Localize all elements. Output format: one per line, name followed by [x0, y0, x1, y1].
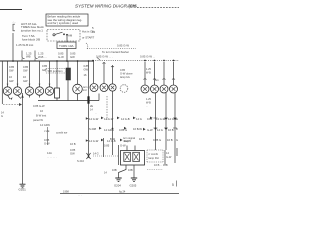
right dashed box text	[149, 152, 159, 160]
connector arrow lamp 3	[29, 84, 31, 86]
svg-text:W-B: W-B	[146, 71, 151, 74]
svg-text:16 B: 16 B	[167, 138, 173, 142]
resistor bottom leg	[56, 98, 58, 101]
svg-text:G-W: G-W	[58, 55, 64, 59]
connector half C1	[22, 51, 25, 59]
relay top label B	[123, 136, 135, 143]
connector label right	[38, 52, 47, 59]
wire from fuse block down	[12, 33, 14, 61]
right wire W2 down	[165, 93, 167, 150]
relay stub A	[126, 146, 128, 151]
svg-text:G-W dome: G-W dome	[120, 72, 133, 76]
bus micro text	[38, 58, 41, 61]
connector tick row 1	[89, 117, 177, 121]
lamp R2 hook	[103, 62, 106, 65]
lamp wire 3	[29, 61, 31, 87]
lamp L1 ground stub	[8, 95, 11, 99]
svg-text:WB: WB	[26, 55, 31, 59]
svg-text:GW: GW	[23, 79, 28, 83]
lamp L2 ground stub	[18, 95, 22, 98]
svg-text:J 2E: J 2E	[44, 129, 50, 133]
svg-text:16B: 16B	[128, 168, 133, 172]
wire color dashes col	[146, 98, 151, 108]
relay leg 2	[133, 165, 135, 178]
svg-text:0.85: 0.85	[70, 148, 76, 152]
header rule left	[0, 9, 22, 11]
svg-text:16B: 16B	[112, 168, 117, 172]
lamp R2 stub	[103, 62, 105, 84]
relay box outer	[121, 151, 145, 166]
page ref marks left edge	[1, 112, 4, 119]
tick	[97, 58, 100, 61]
fuse box	[57, 42, 76, 49]
lamp L6 wire top	[77, 61, 79, 84]
front turn lamp L2	[13, 87, 21, 95]
right lamps feed wire	[93, 61, 95, 83]
svg-text:G204: G204	[114, 184, 121, 188]
rear feed junction dots	[144, 60, 174, 62]
svg-text:14 G-W: 14 G-W	[89, 117, 99, 121]
title suffix (Cont.)	[129, 3, 137, 8]
svg-text:14 G-W: 14 G-W	[156, 117, 166, 121]
svg-text:G101: G101	[19, 188, 27, 192]
bus stub x35	[34, 59, 36, 62]
svg-text:14 G-W: 14 G-W	[89, 139, 99, 143]
svg-text:B-W: B-W	[110, 137, 116, 141]
svg-text:14: 14	[166, 151, 169, 155]
svg-text:14 G: 14 G	[93, 152, 99, 156]
svg-text:16 B: 16 B	[139, 137, 145, 141]
svg-text:14 GRN: 14 GRN	[40, 123, 50, 127]
svg-text:1998: 1998	[63, 190, 69, 194]
vertical color code	[146, 68, 151, 74]
ignition switch dashed box	[47, 30, 80, 42]
junction dot flasher wire	[112, 128, 114, 130]
fuse output labels	[58, 52, 76, 59]
svg-text:16: 16	[9, 75, 12, 79]
bus junction dots	[12, 60, 89, 62]
connector arrow lamp 2	[17, 84, 19, 86]
svg-text:AM: AM	[68, 34, 73, 38]
svg-text:lamp b/u: lamp b/u	[120, 75, 131, 79]
lamp wire 2	[17, 61, 19, 87]
connector tick row 2	[89, 127, 174, 132]
svg-text:0.85: 0.85	[44, 138, 50, 142]
hot in run label	[82, 30, 94, 40]
connector arrow lamp 1	[7, 84, 9, 86]
relay stub B	[134, 146, 136, 151]
hazard switch lamp L6	[73, 84, 83, 94]
wire x88 tick B	[86, 139, 89, 141]
connector block wire top	[67, 61, 69, 68]
rear lamp B1	[141, 85, 149, 93]
row1 arrows	[101, 117, 153, 120]
right wire W3 down	[174, 93, 176, 163]
leader label upper	[117, 44, 129, 48]
bus stub x22	[21, 59, 23, 62]
svg-text:GW: GW	[23, 69, 28, 73]
svg-text:G-W: G-W	[120, 144, 126, 148]
svg-text:0.85 G-W . . .: 0.85 G-W . . .	[96, 55, 113, 59]
wire fuse to bus	[66, 49, 68, 62]
svg-text:16: 16	[40, 109, 43, 113]
svg-text:0.85 G-W: 0.85 G-W	[33, 104, 45, 108]
svg-text:14A: 14A	[47, 151, 52, 155]
mid-left label block 2	[44, 129, 76, 146]
lamp L3 stub	[29, 95, 31, 97]
lamp L6 wire bottom	[77, 94, 79, 101]
svg-text:G-W: G-W	[147, 128, 153, 132]
resistor R1	[55, 88, 60, 98]
flasher leader label	[93, 152, 99, 156]
rear lamp label	[155, 78, 159, 82]
connector hooks rear feeds	[111, 66, 175, 79]
svg-text:or START: or START	[82, 36, 94, 40]
svg-text:1.25 W-B inst: 1.25 W-B inst	[16, 43, 33, 47]
ground G101 label	[19, 188, 27, 192]
svg-text:G205: G205	[130, 184, 137, 188]
svg-text:lamp RH: lamp RH	[149, 156, 159, 160]
svg-text:rr combi: rr combi	[149, 152, 159, 156]
relay coil K2	[133, 152, 140, 161]
connector ticks on right wires	[154, 118, 178, 128]
svg-text:. . . . . . .: . . . . . . .	[47, 156, 57, 159]
svg-text:0.85: 0.85	[104, 144, 110, 148]
flasher dotted leader	[93, 155, 119, 157]
side turn lamp L3	[25, 87, 33, 95]
connector label 14A	[26, 52, 32, 59]
svg-text:GW: GW	[70, 152, 75, 156]
left sub label	[22, 34, 40, 41]
ground merge arrow B	[21, 95, 23, 98]
svg-text:0.85: 0.85	[42, 64, 48, 68]
svg-text:(Cm: (Cm	[129, 3, 137, 8]
svg-text:fig 24: fig 24	[119, 190, 126, 194]
lamp wire 5	[49, 61, 51, 87]
header dotted rule right	[137, 7, 179, 9]
leg labels	[112, 168, 133, 172]
splice label	[77, 159, 85, 163]
svg-text:fuse block J/B: fuse block J/B	[22, 38, 40, 42]
wire x88 tick A	[86, 117, 89, 119]
far-left wire off page	[1, 61, 3, 104]
connector tick row 3	[89, 137, 173, 148]
rear lamp B4	[170, 85, 178, 93]
lamp L6 label	[83, 85, 88, 92]
dashed lamp R4	[120, 85, 128, 93]
relay top label A	[110, 137, 116, 141]
leader sub text	[104, 172, 107, 175]
right dashed label box	[147, 150, 163, 162]
rear lamp feed 1	[144, 62, 146, 85]
svg-text:G: G	[176, 138, 178, 142]
svg-text:0.85: 0.85	[9, 65, 15, 69]
left label bracket	[13, 24, 15, 31]
bus junction dot	[92, 60, 94, 62]
cluster lamp R3	[109, 84, 116, 91]
left fuse block label	[12, 20, 44, 32]
connector block dark	[66, 68, 71, 80]
svg-text:14 G: 14 G	[157, 128, 163, 132]
svg-text:5: 5	[172, 183, 174, 187]
svg-text:relay: relay	[123, 139, 129, 143]
rear lamp feed 2	[154, 62, 156, 85]
lamp R3 lower wire	[112, 91, 114, 155]
ground G101	[20, 184, 26, 188]
svg-text:G: G	[176, 117, 178, 121]
connector block wire bottom	[67, 80, 69, 101]
svg-text:14 G-W: 14 G-W	[104, 117, 114, 121]
lamp wire 4	[39, 61, 41, 87]
cluster lamp R1	[90, 84, 98, 92]
page ref bracket	[172, 183, 174, 187]
ground merge arrow A	[10, 97, 12, 100]
svg-text:combi sw: combi sw	[56, 131, 67, 135]
svg-text:SYSTEM WIRING DIAGRAMS: SYSTEM WIRING DIAGRAMS	[75, 4, 137, 9]
fuse label	[59, 44, 74, 48]
dotted row under box	[147, 169, 163, 171]
svg-text:.: ..: .: ..	[12, 20, 16, 24]
bottom rule label A	[63, 190, 69, 194]
svg-text:0.85 G: 0.85 G	[153, 138, 161, 142]
relay leg 1	[119, 165, 127, 178]
dotted bus label right	[140, 55, 155, 59]
svg-text:14 G: 14 G	[136, 117, 142, 121]
wire label column A	[9, 65, 15, 83]
right edge row text	[176, 117, 178, 142]
svg-text:W-B: W-B	[146, 101, 151, 104]
svg-text:. ..: . ..	[38, 58, 41, 61]
resistor wire	[56, 61, 58, 88]
mid text block right	[120, 68, 133, 79]
svg-text:..: ..	[95, 112, 97, 115]
right column text	[154, 151, 172, 167]
page ref marks	[92, 26, 96, 34]
title SYSTEM WIRING DIAGRAMS	[75, 4, 137, 9]
side turn lamp L4	[35, 87, 43, 95]
svg-text:S/D junction: S/D junction	[48, 69, 64, 73]
far right short wire	[176, 148, 178, 156]
svg-text:TURN 10A: TURN 10A	[59, 44, 74, 48]
lamp L4 stub	[39, 95, 41, 97]
lamp R3 stub	[112, 65, 114, 84]
hot-at-all-times note box	[46, 14, 88, 26]
mid-left label block	[33, 104, 50, 127]
rear lamp B3	[160, 85, 168, 93]
leader arrowhead	[19, 103, 22, 106]
svg-text:0.85: 0.85	[23, 65, 29, 69]
switch inner label	[68, 34, 73, 38]
corner stub up	[98, 94, 100, 101]
svg-text:B: B	[176, 127, 178, 131]
svg-text:16: 16	[84, 73, 87, 77]
dotted bus label left	[96, 55, 113, 59]
instrument note	[16, 43, 33, 47]
svg-text:0.85 G-W . .: 0.85 G-W . .	[140, 55, 155, 59]
svg-text:junction box no.1: junction box no.1	[20, 28, 43, 32]
dotted leader to right	[87, 47, 136, 49]
svg-text:16 B-W: 16 B-W	[133, 127, 142, 131]
svg-text:0.85 G: 0.85 G	[119, 128, 127, 132]
connector arrow lamp 4	[39, 84, 41, 86]
bottom page corner text	[78, 194, 82, 197]
svg-text:end for | symbols | used: end for | symbols | used	[48, 21, 79, 25]
relay coil K1	[124, 152, 131, 161]
svg-text:G-W: G-W	[166, 155, 172, 159]
svg-text:panel W: panel W	[33, 118, 43, 122]
svg-text:14: 14	[92, 30, 96, 34]
rear lamp feed 4	[173, 62, 175, 85]
ground G2 label	[114, 184, 121, 188]
wire label col right	[84, 64, 90, 77]
relay box left lead	[118, 145, 120, 165]
ignition switch contact	[53, 34, 55, 36]
rear turn lamp L5	[45, 87, 53, 95]
ground G2	[115, 178, 121, 182]
svg-text:GW: GW	[84, 67, 89, 71]
row3 arrows	[101, 139, 123, 142]
ground return wire long	[22, 93, 24, 184]
svg-text:b/u: b/u	[155, 78, 159, 82]
dashed bracket to flasher	[86, 43, 88, 49]
wire label column C	[42, 64, 48, 72]
ground G3 label	[130, 184, 137, 188]
svg-text:B-W inst: B-W inst	[36, 114, 46, 118]
svg-text:G: G	[1, 115, 3, 118]
mid-left label block 3	[47, 148, 76, 159]
cluster lamp R2	[100, 84, 108, 92]
svg-text:0.85 G-W: 0.85 G-W	[117, 44, 129, 48]
connector mark on long wire	[87, 96, 89, 103]
dashed label text	[48, 69, 64, 73]
right wire W1 down	[155, 93, 157, 150]
svg-text:16 B: 16 B	[70, 142, 76, 146]
junction dots right wires	[155, 118, 177, 130]
bus dotted right	[93, 59, 179, 61]
rear lamp feed 3	[163, 62, 165, 85]
right box lead	[164, 150, 166, 165]
svg-text:16: 16	[23, 75, 26, 79]
svg-text:ind: ind	[83, 88, 87, 92]
row2 arrows	[99, 127, 146, 131]
svg-text:GW: GW	[9, 69, 14, 73]
front turn lamp L1	[3, 87, 11, 95]
bottom rule	[60, 193, 179, 195]
flasher feed wire pair	[103, 138, 105, 157]
main bus left	[0, 60, 93, 62]
svg-text:14 G-B: 14 G-B	[121, 117, 130, 121]
bottom rule label B	[119, 190, 126, 194]
splice on long wire	[87, 153, 91, 159]
svg-text:S 208: S 208	[89, 127, 97, 131]
long wire right of lamps	[88, 61, 90, 158]
combi switch wire stub	[47, 127, 49, 145]
svg-text:GW: GW	[9, 79, 14, 83]
lamp wire 1	[7, 61, 9, 87]
svg-text:0.85: 0.85	[120, 68, 126, 72]
wire side label col	[90, 105, 97, 115]
svg-text:S 210: S 210	[77, 159, 85, 163]
svg-text:..: ..	[146, 105, 148, 108]
svg-text:G-W: G-W	[44, 142, 50, 146]
dashed harness boundary	[106, 96, 108, 120]
svg-text:14: 14	[104, 172, 107, 175]
ground G3	[131, 178, 137, 182]
svg-text:16 B: 16 B	[168, 128, 174, 132]
leader label lower	[102, 50, 129, 54]
lower bus line	[38, 100, 99, 102]
connector arrow lamp 5	[49, 84, 51, 86]
connector half C2	[35, 51, 38, 59]
dashed label box mid	[46, 69, 66, 74]
svg-text:GW: GW	[70, 55, 75, 59]
svg-text:14: 14	[90, 109, 93, 112]
svg-text:16 B . . 16B: 16 B . . 16B	[154, 163, 168, 167]
wire label column B	[23, 65, 29, 83]
rear lamp B2	[151, 85, 159, 93]
continuation dashed leader	[3, 104, 19, 106]
